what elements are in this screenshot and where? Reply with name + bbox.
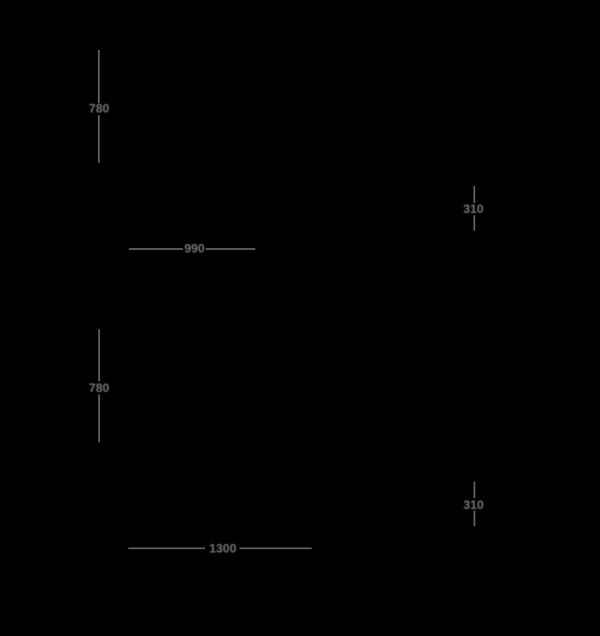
- svg-text:780: 780: [89, 381, 110, 395]
- svg-text:1300: 1300: [209, 542, 236, 556]
- dimension line height 780 (lower unit): [98, 329, 100, 442]
- svg-text:310: 310: [463, 202, 484, 216]
- dimension line width 990 (upper unit): [129, 248, 255, 250]
- dimension line height 780 (upper unit): [98, 50, 100, 163]
- dimension line width 1300 (lower unit): [128, 547, 311, 549]
- dimension ticks depth 310 (lower unit): [473, 482, 475, 527]
- dimension ticks depth 310 (upper unit): [473, 186, 475, 231]
- svg-text:310: 310: [463, 498, 484, 512]
- svg-text:780: 780: [89, 102, 110, 116]
- svg-text:990: 990: [184, 242, 205, 256]
